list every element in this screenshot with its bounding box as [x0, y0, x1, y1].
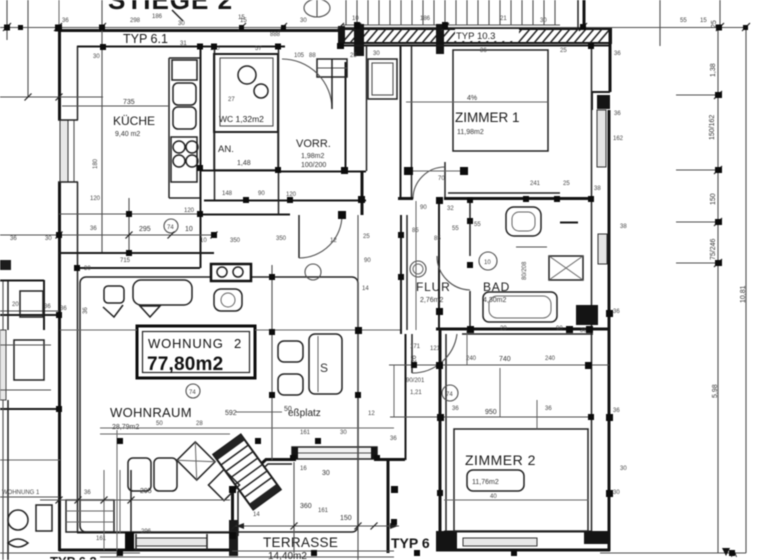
svg-text:295: 295: [139, 226, 151, 233]
svg-text:150: 150: [340, 515, 352, 522]
svg-text:20: 20: [12, 302, 19, 308]
svg-text:31: 31: [180, 41, 187, 47]
svg-text:74: 74: [167, 225, 174, 231]
svg-text:2: 2: [234, 336, 241, 351]
svg-text:148: 148: [222, 191, 233, 197]
kitchen right wall / WC block left: [200, 47, 202, 268]
svg-text:11,98m2: 11,98m2: [457, 129, 484, 136]
svg-text:30: 30: [322, 470, 330, 477]
svg-text:888: 888: [270, 32, 281, 38]
dining table: [133, 280, 192, 305]
svg-text:186: 186: [420, 16, 431, 22]
svg-text:1,48: 1,48: [237, 160, 251, 167]
Zimmer2 bottom wall: [436, 549, 610, 552]
svg-text:10: 10: [484, 260, 491, 266]
svg-text:4,30m2: 4,30m2: [483, 297, 506, 304]
svg-text:38: 38: [594, 186, 601, 192]
svg-text:70: 70: [438, 176, 445, 182]
svg-text:WOHNRAUM: WOHNRAUM: [110, 405, 192, 420]
svg-text:90: 90: [420, 205, 427, 211]
svg-text:36: 36: [613, 408, 620, 414]
svg-text:WC 1,32m2: WC 1,32m2: [219, 114, 264, 124]
svg-text:30: 30: [84, 266, 91, 272]
svg-text:30: 30: [540, 18, 547, 24]
svg-text:25: 25: [563, 181, 570, 187]
svg-text:25: 25: [350, 53, 357, 59]
svg-text:350: 350: [230, 238, 241, 244]
svg-text:15: 15: [240, 18, 247, 24]
svg-text:FLUR: FLUR: [416, 280, 451, 294]
wall below Flur/Bad: [436, 328, 610, 331]
WOHNUNG label box: [137, 326, 255, 378]
svg-text:55: 55: [474, 222, 481, 228]
svg-text:162: 162: [613, 136, 624, 142]
svg-text:36: 36: [613, 309, 620, 315]
terrace notch walls: [233, 460, 293, 552]
Zimmer2 left wall: [439, 329, 442, 551]
svg-text:21: 21: [500, 16, 507, 22]
svg-text:S: S: [320, 361, 328, 375]
svg-text:241: 241: [530, 181, 541, 187]
svg-text:eßplatz: eßplatz: [288, 408, 321, 419]
svg-text:90: 90: [556, 326, 563, 332]
svg-text:120: 120: [90, 196, 101, 202]
svg-text:36: 36: [452, 406, 459, 412]
svg-text:14,40m2: 14,40m2: [268, 551, 307, 560]
svg-text:WOHNUNG 1: WOHNUNG 1: [2, 490, 40, 496]
VORR walls: [278, 46, 280, 214]
svg-text:36: 36: [83, 307, 89, 314]
interior dim verticals: [271, 265, 273, 460]
svg-text:9,40 m2: 9,40 m2: [115, 131, 140, 138]
right dim line 1: [717, 27, 719, 553]
top dimension chain line: [0, 27, 746, 29]
svg-text:30: 30: [300, 18, 307, 24]
svg-text:TYP 6: TYP 6: [391, 535, 430, 551]
svg-text:1,98m2: 1,98m2: [301, 153, 324, 160]
svg-text:25: 25: [363, 234, 370, 240]
diagonal sofa: [213, 435, 280, 510]
svg-text:36: 36: [44, 304, 51, 310]
svg-text:36: 36: [62, 18, 69, 24]
svg-text:36: 36: [614, 111, 621, 117]
svg-text:30: 30: [178, 21, 185, 27]
top wall outer: [58, 29, 342, 32]
right windows: [597, 110, 606, 167]
svg-text:1,38: 1,38: [710, 63, 717, 77]
svg-text:15: 15: [700, 18, 707, 24]
svg-text:30: 30: [45, 236, 52, 242]
svg-text:171: 171: [410, 344, 421, 350]
svg-text:240: 240: [466, 356, 477, 362]
svg-text:32: 32: [447, 206, 454, 212]
svg-text:75/246: 75/246: [710, 238, 717, 260]
svg-text:28: 28: [196, 421, 203, 427]
svg-text:36: 36: [84, 490, 91, 496]
top wall inner: [77, 46, 285, 48]
svg-text:55: 55: [452, 226, 459, 232]
VORR-living door: [298, 215, 300, 258]
svg-text:36: 36: [545, 406, 552, 412]
svg-text:30: 30: [620, 466, 627, 472]
bottom wall (living room): [59, 549, 233, 552]
left dim lines: [0, 234, 214, 236]
svg-text:74: 74: [446, 392, 453, 398]
svg-text:4%: 4%: [467, 95, 477, 102]
svg-text:735: 735: [123, 99, 135, 106]
svg-text:10: 10: [185, 226, 193, 233]
svg-text:161: 161: [300, 430, 311, 436]
svg-text:180: 180: [93, 158, 99, 169]
svg-text:592: 592: [225, 410, 237, 417]
left wall outer: [58, 29, 61, 120]
svg-text:ZIMMER 1: ZIMMER 1: [455, 110, 520, 125]
corridor strip / Flur left wall: [438, 201, 440, 330]
Zimmer1 left wall + door: [400, 46, 402, 199]
svg-text:360: 360: [300, 503, 312, 510]
svg-text:WOHNUNG: WOHNUNG: [148, 336, 224, 351]
svg-text:350: 350: [276, 236, 287, 242]
svg-text:30: 30: [613, 490, 620, 496]
svg-text:36: 36: [90, 226, 97, 232]
kitchen dim line: [59, 213, 200, 215]
svg-text:50: 50: [156, 421, 163, 427]
svg-text:80/208: 80/208: [522, 261, 528, 280]
terrace bottom edge: [232, 550, 394, 552]
svg-text:VORR.: VORR.: [296, 138, 331, 150]
svg-text:14: 14: [253, 512, 260, 518]
svg-text:10,81: 10,81: [740, 285, 747, 303]
svg-text:36: 36: [614, 51, 621, 57]
svg-text:186: 186: [152, 14, 163, 20]
svg-text:950: 950: [485, 409, 497, 416]
svg-text:25: 25: [560, 48, 567, 54]
svg-text:1,21: 1,21: [410, 390, 422, 396]
svg-text:30: 30: [340, 430, 347, 436]
svg-text:100/200: 100/200: [301, 162, 326, 169]
dim line below flur/bad: [389, 364, 609, 366]
VORR wardrobe: [317, 59, 347, 77]
armchair pair bottom-left: [128, 458, 151, 491]
right wall inner: [591, 46, 593, 531]
svg-text:298: 298: [130, 18, 141, 24]
svg-text:36: 36: [60, 306, 67, 312]
svg-text:2,76m2: 2,76m2: [420, 297, 443, 304]
svg-text:ZIMMER 2: ZIMMER 2: [465, 452, 536, 468]
right wall outer: [609, 29, 612, 92]
section marker A: [722, 548, 730, 556]
svg-text:AN.: AN.: [218, 144, 234, 155]
svg-text:120: 120: [184, 208, 195, 214]
svg-text:38: 38: [620, 224, 627, 230]
svg-text:20: 20: [500, 326, 507, 332]
svg-text:40: 40: [490, 494, 497, 500]
stair up-arrow oval: [304, 0, 330, 17]
AN room: [214, 132, 278, 170]
hatched wall band (existing wall): [338, 24, 611, 56]
svg-text:85: 85: [434, 236, 441, 242]
plant table: [214, 289, 242, 311]
strip wall left of Zimmer2: [411, 334, 413, 373]
WC room: [214, 54, 278, 132]
extra dim extension lines: [0, 201, 537, 557]
Flur/Bad divider: [469, 201, 471, 256]
svg-text:14: 14: [362, 286, 369, 292]
svg-text:161: 161: [96, 536, 107, 542]
svg-text:TERRASSE: TERRASSE: [263, 535, 338, 550]
svg-text:5,98: 5,98: [712, 384, 719, 398]
stair treads STIEGE 2: [343, 0, 560, 25]
svg-text:30: 30: [93, 54, 100, 60]
bottom window living room: [136, 538, 207, 546]
diagonal side table: [177, 442, 215, 480]
svg-text:STIEGE 2: STIEGE 2: [108, 0, 233, 15]
svg-text:16: 16: [300, 466, 307, 472]
svg-text:57: 57: [255, 46, 262, 52]
left wall inner: [77, 46, 79, 120]
svg-text:TYP 6.2: TYP 6.2: [50, 554, 97, 560]
svg-text:715: 715: [120, 258, 131, 264]
svg-text:150: 150: [710, 193, 717, 205]
svg-text:KÜCHE: KÜCHE: [113, 114, 155, 128]
entry door arc: [282, 59, 332, 109]
sink unit on kitchen wall: [211, 264, 251, 281]
svg-text:240: 240: [545, 356, 556, 362]
svg-text:296: 296: [141, 529, 152, 535]
sideboard bottom: [66, 500, 114, 532]
svg-text:77,80m2: 77,80m2: [147, 354, 223, 375]
living room right wall: [400, 215, 402, 334]
svg-text:55: 55: [680, 18, 687, 24]
wall under AN / corridor band: [200, 170, 278, 172]
armchairs + sofa right: [278, 341, 303, 362]
svg-text:90: 90: [364, 258, 371, 264]
svg-text:295: 295: [140, 488, 152, 495]
svg-text:12: 12: [330, 238, 337, 244]
svg-text:740: 740: [499, 356, 511, 363]
svg-text:150/162: 150/162: [709, 115, 716, 140]
svg-text:88: 88: [309, 53, 316, 59]
terrace door: [292, 447, 377, 459]
svg-text:105: 105: [294, 53, 305, 59]
svg-text:121: 121: [430, 346, 441, 352]
svg-text:12: 12: [368, 411, 375, 417]
svg-text:85: 85: [412, 228, 419, 234]
svg-text:30: 30: [373, 51, 380, 57]
svg-text:TYP 6.1: TYP 6.1: [123, 32, 168, 46]
svg-text:90/201: 90/201: [406, 378, 425, 384]
svg-text:36: 36: [10, 236, 17, 242]
svg-text:36: 36: [390, 436, 397, 442]
kitchen bottom wall: [59, 252, 214, 254]
svg-text:161: 161: [318, 508, 329, 514]
svg-text:27: 27: [228, 97, 235, 103]
svg-text:TYP 10.3: TYP 10.3: [456, 31, 495, 42]
svg-text:36: 36: [480, 48, 487, 54]
svg-text:10: 10: [352, 16, 359, 22]
left window: [58, 120, 78, 182]
svg-text:90: 90: [258, 191, 265, 197]
svg-text:11,76m2: 11,76m2: [472, 479, 499, 486]
Zimmer1 bottom wall: [398, 197, 413, 200]
svg-text:74: 74: [189, 390, 196, 396]
svg-text:10: 10: [200, 238, 207, 244]
Zimmer1 wardrobe: [368, 59, 397, 99]
